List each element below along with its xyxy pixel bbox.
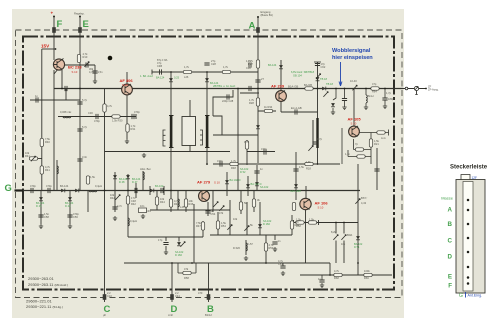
svg-text:L45: L45 (180, 205, 185, 209)
diode D36 (279, 65, 283, 69)
capacitor C14 (160, 69, 162, 74)
Steckerleiste contact strip (463, 182, 473, 292)
capacitor CA1 (255, 80, 260, 82)
wire: B column (208, 263, 210, 302)
resistor R34 (264, 109, 272, 112)
wire: 15V drop vertical (41, 49, 43, 191)
svg-text:1,5k R30: 1,5k R30 (112, 119, 123, 123)
trimmer P22 (219, 206, 224, 211)
svg-text:S 10: S 10 (72, 70, 78, 74)
svg-text:C44: C44 (175, 294, 180, 298)
wire: mid vertical x247 (246, 140, 248, 165)
svg-text:Steckerleiste: Steckerleiste (450, 165, 488, 171)
svg-text:4,7k: 4,7k (89, 70, 95, 74)
capacitor C9 (86, 62, 88, 67)
wire x342 drop (341, 128, 343, 164)
wire: right column x377 (376, 148, 378, 190)
svg-text:hier einspeisen: hier einspeisen (332, 55, 373, 61)
trimmer P56 (244, 226, 249, 231)
svg-text:R21: R21 (374, 142, 379, 146)
Steckerleiste outer box (456, 180, 485, 294)
connector block A entry (256, 27, 260, 33)
svg-text:12F: 12F (472, 176, 478, 180)
resistor R81 (296, 221, 304, 224)
capacitor C48 on bus (135, 188, 137, 193)
trimmer P61 (352, 85, 357, 90)
wire: A column lower + step route (213, 89, 258, 164)
trimmer D182 arrow (180, 242, 185, 247)
resistor R19 (357, 155, 365, 158)
wire: left row y116.5 (58, 114, 136, 119)
resistor R47b (201, 222, 204, 230)
svg-text:470p: 470p (46, 184, 52, 188)
diode D45 (150, 189, 154, 193)
svg-text:C61: C61 (278, 262, 283, 266)
svg-text:4,7k: 4,7k (107, 104, 113, 108)
svg-text:R44: R44 (160, 200, 165, 204)
svg-text:15V: 15V (41, 44, 50, 49)
diode D42 (39, 197, 43, 201)
transformer T1 right core bar (206, 116, 209, 148)
svg-text:D 44: D 44 (65, 204, 71, 208)
resistor R31 (245, 141, 248, 149)
ground L61 (364, 105, 368, 110)
wire: cluster sub-bus y210 (150, 209, 230, 211)
svg-text:R18: R18 (306, 167, 311, 171)
diode D23 (225, 180, 229, 184)
svg-text:R42: R42 (131, 202, 136, 206)
resistor R54 (216, 221, 219, 229)
wire: right vertical x358 (357, 164, 359, 275)
svg-text:R47: R47 (196, 224, 201, 228)
wire: cap string below collector (94, 65, 96, 80)
svg-text:Abst. Ber.: Abst. Ber. (140, 167, 152, 171)
capacitor C61 (382, 98, 387, 100)
connector block F entry (52, 27, 56, 33)
resistor R31b (126, 124, 129, 132)
svg-text:R41: R41 (45, 168, 50, 172)
wire: AF106 emitter vertical (305, 210, 307, 263)
trimmer P21 (213, 202, 218, 207)
svg-text:D 51: D 51 (354, 245, 360, 249)
svg-text:17p: 17p (158, 238, 163, 242)
resistor R29 (103, 104, 106, 112)
svg-text:E: E (448, 274, 452, 281)
svg-text:220p C28: 220p C28 (222, 99, 234, 103)
svg-text:ZF-Ausg.: ZF-Ausg. (428, 88, 439, 92)
capacitor C11 (92, 71, 97, 73)
svg-text:R10: R10 (83, 55, 88, 59)
diode D44b (75, 189, 79, 193)
wire C81 (282, 263, 284, 266)
svg-text:1,7k: 1,7k (184, 65, 190, 69)
svg-text:R68: R68 (334, 276, 339, 280)
svg-text:47p: 47p (157, 61, 162, 65)
wire: D column (171, 263, 173, 302)
svg-text:C10: C10 (107, 294, 112, 298)
transformer T1 bar end ticks (169, 116, 210, 148)
resistor R73 (377, 131, 385, 134)
resistor R84 (364, 273, 372, 276)
diode D61 (322, 87, 326, 91)
capacitor C59b (163, 243, 168, 245)
diode D56 (258, 224, 262, 228)
trimmer P81 (333, 235, 338, 240)
capacitor C47 (112, 207, 117, 209)
svg-text:1,7p: 1,7p (386, 91, 392, 95)
svg-text:B1A-GB: B1A-GB (288, 85, 298, 89)
capacitor C72 (312, 142, 317, 144)
node dot A bus (257, 88, 259, 90)
svg-text:BA 102: BA 102 (155, 184, 164, 188)
svg-text:470p: 470p (261, 147, 267, 151)
svg-text:+: + (51, 11, 54, 16)
wire: hanging strings from ground bus (115, 171, 254, 237)
svg-text:BA 124: BA 124 (156, 76, 165, 80)
svg-text:1,5k: 1,5k (306, 160, 312, 164)
wire: mid cluster sub-bus y235 (210, 234, 292, 236)
svg-text:B: B (448, 221, 453, 228)
svg-text:S 10: S 10 (318, 206, 324, 210)
svg-text:AF 239: AF 239 (271, 84, 285, 89)
svg-text:GB 104: GB 104 (293, 74, 302, 78)
capacitor C4 (77, 102, 82, 104)
resistor R44 (155, 197, 158, 205)
capacitor C18 (249, 62, 251, 67)
svg-text:C49: C49 (146, 209, 151, 213)
svg-text:470p: 470p (30, 184, 36, 188)
node dot E top (79, 16, 81, 18)
svg-text:R27: R27 (248, 62, 253, 66)
capacitor C59 (272, 242, 277, 244)
node dot F top (53, 16, 55, 18)
svg-text:B1/12: B1/12 (205, 313, 212, 317)
wire: transformer1 box leads (189, 100, 191, 152)
svg-text:1k R34: 1k R34 (264, 105, 273, 109)
resistor R42b (126, 196, 129, 204)
svg-text:R58: R58 (184, 276, 189, 280)
resistor R47 box (139, 208, 147, 213)
svg-text:47p: 47p (372, 82, 377, 86)
resistor R4 (40, 166, 43, 174)
svg-text:D: D (448, 254, 453, 261)
wire: transformer1 right winding lead (206, 72, 208, 165)
wire: BC238 emitter to bus (54, 69, 58, 74)
Steckerleiste labels (441, 196, 454, 290)
resistor R82 (308, 221, 316, 224)
transformer T1 shield box (182, 117, 196, 146)
svg-text:10k: 10k (233, 217, 238, 221)
svg-text:R59: R59 (269, 246, 274, 250)
svg-text:E: E (83, 19, 89, 30)
capacitor C33 (254, 171, 259, 173)
diode D81 (356, 236, 360, 240)
capacitor C45 (67, 215, 72, 217)
svg-text:Masse: Masse (441, 196, 454, 201)
svg-text:47k: 47k (219, 211, 224, 215)
svg-text:R66: R66 (364, 276, 369, 280)
svg-text:C62: C62 (321, 65, 326, 69)
svg-text:BSY↑: BSY↑ (361, 196, 368, 200)
ground R31b (125, 139, 129, 144)
svg-text:C30: C30 (88, 111, 93, 115)
ground L57 (244, 256, 248, 261)
svg-text:μF: μF (103, 313, 106, 317)
svg-text:5,7p: 5,7p (82, 125, 88, 129)
ground C81 (281, 271, 285, 276)
coil L45 (178, 199, 179, 207)
svg-text:C28: C28 (211, 62, 216, 66)
svg-text:L26: L26 (184, 75, 189, 79)
resistor R59 (264, 243, 267, 251)
svg-text:R31: R31 (131, 127, 136, 131)
resistor RA1 (256, 60, 259, 68)
capacitor C62 (342, 99, 347, 101)
connector block B exit (207, 294, 211, 300)
ground D62 (331, 110, 335, 115)
svg-text:8mH: 8mH (368, 94, 374, 98)
wire: C column (104, 89, 106, 303)
diode D24 (246, 184, 250, 188)
resistor R3 (40, 138, 43, 146)
capacitor C34 (293, 169, 298, 171)
svg-text:1,7p: 1,7p (317, 137, 323, 141)
Wobbler arrow (339, 62, 342, 86)
svg-text:S 10: S 10 (351, 122, 357, 126)
wire: lower bus y263 (124, 262, 330, 264)
wire: pot link (38, 158, 42, 160)
svg-text:10n: 10n (140, 204, 145, 208)
svg-text:R41: R41 (25, 154, 30, 158)
diode D62 (331, 103, 335, 107)
diode D51 zener (316, 74, 321, 79)
wire: main RF bus y88.5 (54, 88, 403, 90)
svg-text:R46: R46 (189, 202, 194, 206)
svg-text:29600−221.01: 29600−221.01 (26, 299, 52, 304)
diode D182 (177, 242, 181, 246)
wire C61 (384, 89, 386, 105)
connector block E entry (78, 27, 82, 33)
transformer T1 left winding bracket (163, 130, 166, 146)
node dot A top (257, 16, 259, 18)
svg-text:0,25: 0,25 (174, 76, 180, 80)
capacitor C5 (77, 129, 82, 131)
svg-text:470p: 470p (217, 159, 223, 163)
resistor R17 (355, 148, 363, 151)
svg-text:R48: R48 (231, 166, 236, 170)
ground C82 (320, 283, 324, 288)
capacitor C32 (220, 161, 222, 166)
svg-text:D 52: D 52 (240, 170, 246, 174)
coil L57 (246, 243, 247, 251)
svg-text:R45: R45 (174, 202, 179, 206)
coil L1 (63, 117, 71, 118)
resistor R25 (252, 199, 255, 207)
capacitor C42 (48, 188, 50, 193)
resistor R45 (169, 199, 172, 207)
wire: AF105 leads (353, 89, 355, 127)
Ant Eing blue tick (465, 292, 467, 298)
svg-text:G: G (459, 293, 463, 299)
output open circle (405, 87, 408, 90)
ground at C11 (93, 79, 97, 84)
svg-text:BA 102 D: BA 102 D (230, 178, 241, 182)
wire: 15V feed (42, 48, 56, 50)
svg-text:1,1n: 1,1n (345, 152, 351, 156)
svg-text:Regelsp.: Regelsp. (74, 12, 85, 16)
resistor R30 (112, 115, 120, 118)
transistor BC238 body (53, 59, 64, 70)
wire: mid bus y152 (105, 151, 276, 153)
svg-text:G: G (5, 183, 12, 194)
svg-text:BA 124: BA 124 (60, 184, 69, 188)
ground C59 (273, 247, 277, 252)
svg-text:2B/TBG u. Gt. Ausf.: 2B/TBG u. Gt. Ausf. (213, 84, 236, 88)
svg-text:(Basis B1): (Basis B1) (261, 13, 274, 17)
Steckerleiste top tab (461, 175, 470, 180)
svg-text:R54: R54 (221, 224, 226, 228)
junction dots on output bus (335, 88, 337, 90)
resistor R72 (369, 139, 372, 147)
transformer T1 left core bar (170, 116, 173, 148)
wire: E input vertical (79, 17, 81, 191)
coil L41 (89, 191, 97, 192)
outer cut dashed border (16, 30, 403, 298)
svg-text:C30: C30 (246, 66, 251, 70)
capacitor C82 (319, 280, 324, 282)
transistor AF279 body (199, 191, 210, 202)
svg-text:1,5k: 1,5k (90, 175, 96, 179)
svg-text:TB 18: TB 18 (320, 77, 327, 81)
transistor AF105 body (349, 126, 360, 137)
diode D41 (61, 189, 65, 193)
resistor R52 on bus (305, 87, 313, 90)
wire: bottom right bus y275 (300, 263, 392, 275)
ground C62 (342, 105, 346, 110)
svg-text:C56: C56 (73, 215, 78, 219)
svg-text:Bildl.: Bildl. (347, 233, 353, 237)
output node dot (425, 88, 427, 90)
wire: diode string to AF106 (295, 152, 297, 200)
svg-text:A: A (249, 21, 256, 32)
diode D32 (294, 184, 298, 188)
wire: AF106 emitter row (294, 220, 319, 225)
svg-text:BA-NB: BA-NB (304, 83, 312, 87)
capacitor C16 (204, 63, 209, 65)
wire: left vertical x66 (65, 89, 67, 101)
diode DA1 (256, 125, 260, 129)
resistor R12 (183, 70, 191, 73)
resistor R85 (183, 271, 191, 274)
resistor R10 (77, 54, 80, 62)
svg-text:1,5n: 1,5n (98, 70, 104, 74)
wire: upper row y72 (152, 70, 258, 75)
wire R73 (359, 130, 389, 165)
diode D12 (205, 78, 209, 82)
ground cluster 1 (141, 214, 145, 219)
wire: BC238 collector line (65, 64, 96, 66)
wire: mid bus y165 (213, 163, 340, 165)
svg-text:1,7k: 1,7k (223, 65, 229, 69)
ground C59b (164, 250, 168, 255)
wire: left block hangers (41, 191, 88, 225)
svg-text:A: A (448, 207, 453, 214)
wire: mid cluster legs (208, 200, 292, 263)
svg-text:29300−263.01: 29300−263.01 (28, 276, 54, 281)
svg-text:470: 470 (198, 291, 203, 295)
capacitor C44 (38, 215, 43, 217)
transistor AF106 internals (304, 199, 310, 210)
svg-text:4,43: 4,43 (361, 201, 367, 205)
resistor R24 (239, 202, 242, 210)
diode D43 (68, 197, 72, 201)
transistor AF239 internals (279, 91, 285, 102)
inner dash-dot frame (23, 37, 394, 290)
trimmer P72 (308, 146, 313, 151)
diode D49 (126, 175, 130, 179)
svg-text:C54: C54 (211, 212, 216, 216)
svg-text:S 10: S 10 (122, 83, 128, 87)
svg-text:3,3n: 3,3n (82, 155, 88, 159)
svg-text:BA 124: BA 124 (268, 63, 277, 67)
capacitor C30 on bus (65, 86, 67, 91)
capacitor C51 (315, 64, 320, 66)
svg-text:47k: 47k (184, 267, 189, 271)
svg-text:8,2k: 8,2k (331, 230, 337, 234)
svg-text:R28: R28 (249, 101, 254, 105)
svg-text:AF 279: AF 279 (197, 180, 211, 185)
capacitor C2 (36, 97, 38, 102)
wire: AF239 leads (240, 60, 318, 112)
svg-text:5,7p: 5,7p (82, 98, 88, 102)
wire: A input vertical (257, 17, 259, 89)
trimmer P1 (29, 157, 37, 160)
svg-text:D 47: D 47 (132, 180, 138, 184)
capacitor C37 (295, 109, 297, 114)
trimmer P55 (227, 225, 232, 230)
svg-text:10-40: 10-40 (350, 79, 357, 83)
resistor R46 (184, 199, 187, 207)
ground C47 (113, 216, 117, 221)
svg-text:TB 18: TB 18 (326, 82, 333, 86)
svg-text:R58: R58 (296, 224, 301, 228)
svg-text:R64: R64 (372, 89, 377, 93)
svg-text:470p: 470p (134, 110, 140, 114)
capacitor C81 (280, 266, 285, 268)
output plug symbol (414, 86, 418, 90)
trimmer P82 (341, 235, 346, 240)
svg-text:4,7k: 4,7k (334, 269, 340, 273)
capacitor C35 on bus (249, 86, 251, 91)
resistor R14 (222, 70, 230, 73)
svg-text:C: C (448, 238, 453, 245)
wire: AF106 collector up (305, 186, 307, 199)
transistor BC238 internals (54, 59, 64, 70)
ground C61 (383, 104, 387, 109)
svg-text:470p: 470p (94, 119, 100, 123)
wire R19 (348, 150, 371, 157)
svg-text:D 620: D 620 (233, 246, 240, 250)
svg-text:1,5k: 1,5k (299, 165, 305, 169)
transformer T1 right winding bracket (200, 130, 203, 145)
svg-text:S 10: S 10 (214, 181, 220, 185)
coil L61 (366, 95, 367, 103)
transistor AF239 body (276, 91, 287, 102)
svg-text:0,4μH: 0,4μH (130, 219, 137, 223)
wire: cluster sub-bus y237 (128, 221, 203, 250)
output plug arrow (415, 87, 418, 95)
resistor R41 (86, 176, 89, 184)
